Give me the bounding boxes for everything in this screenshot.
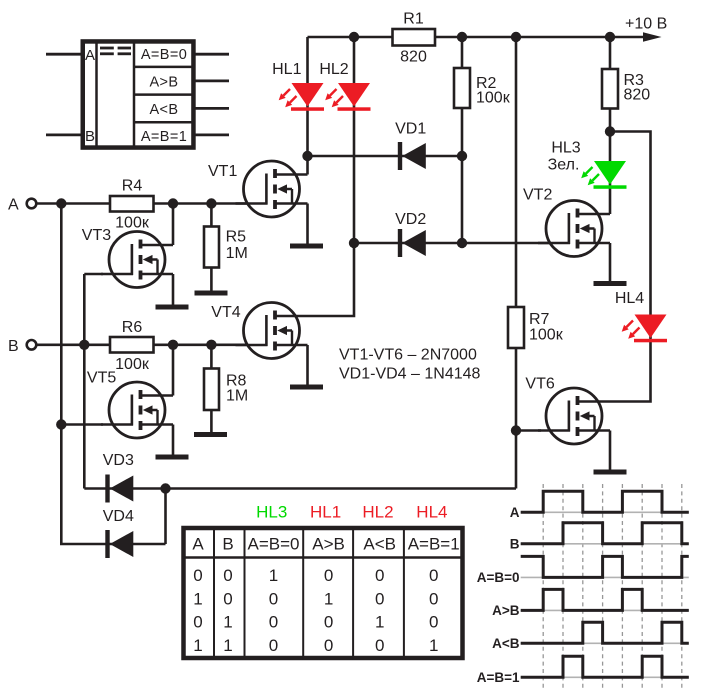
svg-text:1: 1 [429,636,438,655]
wire VT5 gate [61,423,103,426]
svg-text:VT4: VT4 [211,304,240,321]
ground (VT4 source) [290,385,323,390]
svg-text:A=B=1: A=B=1 [141,129,187,145]
svg-text:A<B: A<B [363,535,396,554]
LED HL4 [622,315,667,343]
svg-text:820: 820 [624,87,651,104]
wire VD3 row (sum node) [84,487,516,490]
svg-text:HL1: HL1 [272,61,301,78]
svg-text:820: 820 [400,49,427,66]
wire VT4 drain [308,243,355,316]
junction: rail / HL2 anode [349,32,359,42]
junction: rail / R2 [457,32,467,42]
+10V arrow [643,32,662,42]
junction: rail / R3 [605,32,615,42]
svg-text:A: A [85,47,95,64]
logic symbol output wire A<B [194,107,229,110]
svg-text:0: 0 [223,590,232,609]
wire R7 branch upper [515,37,518,307]
logic symbol output wire A=B=0 [194,53,229,56]
svg-text:VD3: VD3 [103,452,134,469]
wire VT3 gate to B row [84,273,103,276]
wire VT2 source [609,243,612,282]
svg-text:1: 1 [193,636,202,655]
junction: A line / VT5 gate [56,419,66,429]
junction: rail / R7 [511,32,521,42]
svg-text:A=B=1: A=B=1 [408,535,460,554]
wire A vertical to VT5 gate and VD4 [61,204,165,545]
wire VT5 source [172,425,175,456]
svg-text:0: 0 [193,613,202,632]
junction: VD1 anode / R2 [457,151,467,161]
svg-text:1M: 1M [226,245,248,262]
wire R7 bottom to VT6 gate and sum node [515,348,518,489]
LED HL3 green [581,161,626,189]
LED HL1 [279,83,324,111]
truth table frame [182,526,464,660]
waveform A<B [521,622,689,643]
junction: HL2 cathode / VT4 drain / VD2 [349,238,359,248]
resistor R3 [602,69,618,109]
junction: HL1 cathode / VT1 drain / VD1 [302,151,312,161]
svg-text:0: 0 [269,613,278,632]
input terminal B [27,340,37,350]
ground (R8) [194,432,227,437]
logic symbol == qualifier [100,47,131,56]
transistor VT4 [236,303,308,359]
svg-text:A: A [192,535,204,554]
timing grid dashed verticals [543,484,682,688]
wire VT1 source [306,204,309,245]
wire R5 top [210,204,213,292]
diode VD4 [105,530,133,558]
svg-text:0: 0 [375,636,384,655]
waveform A=B=1 [521,656,689,677]
waveform A=B=0 [521,556,689,577]
svg-text:R1: R1 [403,11,424,28]
svg-text:1: 1 [223,636,232,655]
svg-text:VD1: VD1 [395,121,426,138]
svg-text:VT2: VT2 [523,187,552,204]
svg-text:HL4: HL4 [615,290,644,307]
logic symbol output wire A>B [194,80,229,83]
svg-text:0: 0 [429,590,438,609]
svg-text:Зел.: Зел. [548,157,580,174]
svg-text:A=B=0: A=B=0 [248,535,300,554]
ground (VT5 source) [156,455,189,460]
svg-text:VT1: VT1 [208,163,237,180]
wire HL4 branch [610,132,651,402]
wire B row left [37,343,111,346]
wire VT4 source [306,345,309,385]
svg-text:A<B: A<B [149,102,178,118]
svg-text:B: B [510,537,520,552]
svg-text:0: 0 [375,590,384,609]
diode VD3 [105,475,133,503]
resistor R4 [110,196,154,212]
svg-text:R7: R7 [529,311,550,328]
transistor VT3 [101,232,173,288]
timing zero-level gray lines [521,512,689,677]
svg-text:1: 1 [269,566,278,585]
svg-text:A: A [510,505,520,520]
svg-text:VT3: VT3 [82,227,111,244]
resistor R6 [110,337,154,353]
junction: VD3 / VD4 cathodes [160,483,170,493]
svg-text:100к: 100к [529,327,564,344]
resistor R8 [204,369,219,411]
wire VD1 row [308,155,463,158]
wire VD2 row [354,242,569,245]
junction: node B / R8 [206,340,216,350]
wire VD4 to sum node [164,489,167,545]
junction: node B / VT3 gate [79,340,89,350]
svg-text:A>B: A>B [492,603,520,618]
wire VT3 source [172,274,175,305]
svg-text:HL3: HL3 [551,140,580,157]
diode VD2 [398,229,426,257]
resistor R7 [508,307,524,348]
wire HL1 branch [306,37,309,156]
waveform A [521,491,689,512]
svg-text:1: 1 [193,590,202,609]
wire HL3 / VT2 drain [609,132,612,215]
ground (VT2 source) [594,281,627,286]
junction: R7 / VT6 gate / sum node [511,425,521,435]
wire VT3 gate vertical / VD3 feed [83,274,86,489]
resistor R1 [393,29,436,46]
svg-text:B: B [8,338,19,355]
resistor R2 [454,68,470,108]
svg-text:0: 0 [223,566,232,585]
wire VT5 drain [172,345,175,396]
svg-text:VD4: VD4 [103,508,134,525]
wire R2 branch [461,37,464,243]
svg-text:HL3: HL3 [256,503,287,522]
diode VD1 [398,142,426,170]
transistor VT5 [101,382,173,438]
wire A row left [37,202,111,205]
svg-text:0: 0 [269,636,278,655]
ground (VT1 source) [290,244,323,249]
logic symbol input wire B [46,133,82,136]
wire VT3 drain [172,204,175,246]
svg-text:0: 0 [193,566,202,585]
svg-text:R4: R4 [122,178,143,195]
svg-text:1: 1 [223,613,232,632]
input terminal A [27,199,37,209]
logic symbol output wire A=B=1 [194,133,229,136]
svg-text:VD1-VD4 – 1N4148: VD1-VD4 – 1N4148 [339,366,481,383]
junction: R3 / HL3 / HL4 [605,126,615,136]
junction: VD2 anode / R2 / VT2 gate [457,238,467,248]
junction: node A / VT3 drain [168,198,178,208]
junction: node A / VD4 branch [56,198,66,208]
svg-text:0: 0 [269,590,278,609]
svg-text:HL2: HL2 [362,503,393,522]
svg-text:100к: 100к [476,90,511,107]
svg-text:100к: 100к [115,215,150,232]
svg-text:A: A [8,197,19,214]
ground (VT3 source) [156,305,189,310]
svg-text:A<B: A<B [492,636,520,651]
junction: node B / VT5 drain [168,340,178,350]
wire +10V top rail [308,36,645,39]
svg-text:0: 0 [429,613,438,632]
wire VT6 source [609,431,612,471]
svg-text:HL4: HL4 [416,503,447,522]
svg-text:VT5: VT5 [87,370,116,387]
svg-text:1M: 1M [226,388,248,405]
svg-text:1: 1 [375,613,384,632]
resistor R5 [204,227,219,268]
transistor VT6 [538,388,610,444]
svg-text:0: 0 [375,566,384,585]
wire VT1 drain [306,156,309,175]
waveform A>B [521,589,689,610]
wire A row right to VT1 gate [154,202,268,205]
svg-text:1: 1 [324,590,333,609]
svg-text:0: 0 [324,613,333,632]
svg-text:A=B=0: A=B=0 [141,47,187,63]
svg-text:HL1: HL1 [310,503,341,522]
junction: node A / R5 [206,198,216,208]
svg-text:VT1-VT6 – 2N7000: VT1-VT6 – 2N7000 [339,347,477,364]
svg-text:A>B: A>B [312,535,345,554]
wire VT6 gate [516,429,541,432]
svg-text:B: B [85,128,95,145]
transistor VT1 [236,161,308,217]
svg-text:100к: 100к [115,356,150,373]
comparator logic symbol box [83,41,194,147]
svg-text:HL2: HL2 [319,61,348,78]
ground (R5) [195,291,228,296]
svg-text:A>B: A>B [149,75,178,91]
svg-text:A=B=0: A=B=0 [477,570,520,585]
wire R8 top [210,345,213,433]
svg-text:0: 0 [324,636,333,655]
svg-text:R5: R5 [226,229,247,246]
transistor VT2 [538,201,610,257]
svg-text:0: 0 [429,566,438,585]
LED HL2 [325,83,370,111]
svg-text:VT6: VT6 [525,376,554,393]
svg-text:R6: R6 [122,319,143,336]
wire B row right to VT4 gate [154,343,268,346]
svg-text:0: 0 [324,566,333,585]
waveform B [521,523,689,544]
logic symbol input wire A [46,53,82,56]
svg-text:A=B=1: A=B=1 [477,670,520,685]
wire R3 branch [609,37,612,132]
ground (VT6 source) [594,470,627,475]
wire HL2 branch [353,37,356,243]
svg-text:+10 В: +10 В [625,16,667,33]
svg-text:B: B [222,535,233,554]
svg-text:VD2: VD2 [395,211,426,228]
